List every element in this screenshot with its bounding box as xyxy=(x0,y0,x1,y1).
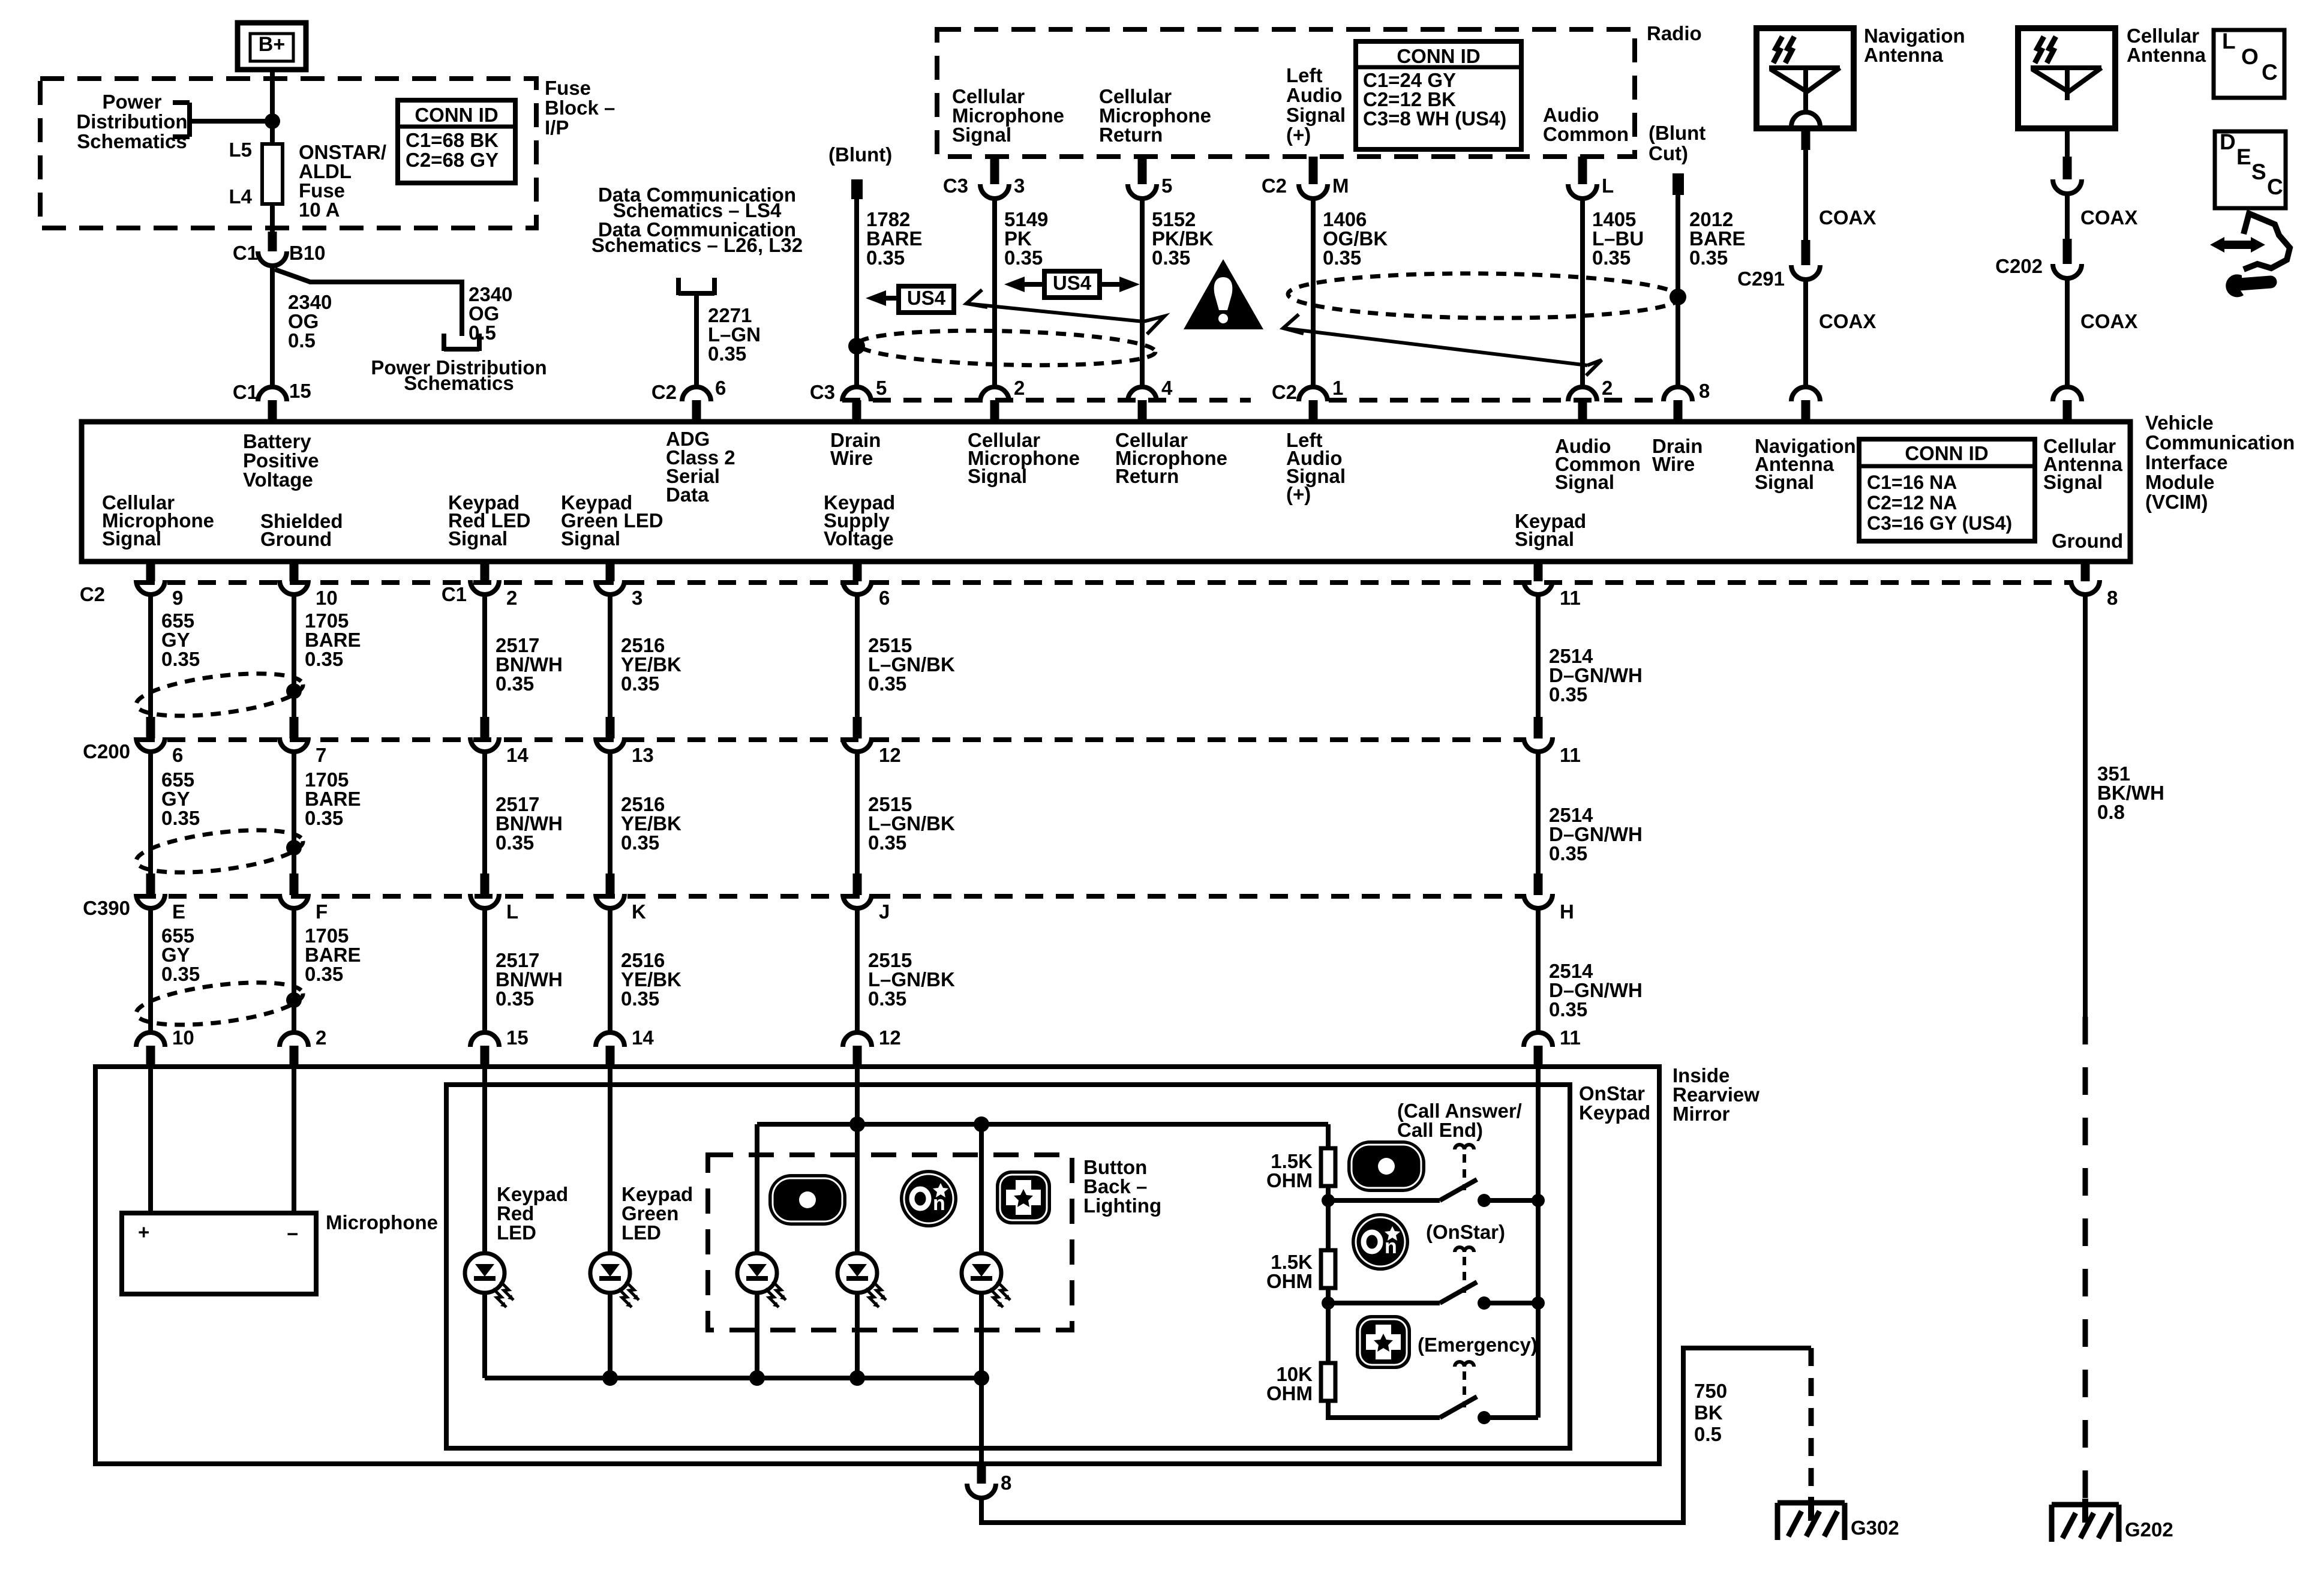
connector row C200 pin 7 xyxy=(280,737,308,752)
wire column x=1429 rows xyxy=(853,562,862,581)
LED backlight 1 xyxy=(737,1253,786,1307)
connector row C2 pin 9 xyxy=(136,580,165,595)
resistor R2 1.5K xyxy=(1321,1250,1335,1288)
battery feed B+ symbol xyxy=(238,23,306,70)
LED backlight 2 xyxy=(837,1253,886,1307)
svg-text:0.35: 0.35 xyxy=(1323,247,1361,269)
svg-text:1: 1 xyxy=(1332,377,1343,399)
svg-text:0.35: 0.35 xyxy=(708,343,746,365)
svg-text:Return: Return xyxy=(1099,124,1163,146)
Cellular antenna symbol xyxy=(2031,65,2101,70)
svg-text:F: F xyxy=(316,900,328,923)
LED keypad green xyxy=(590,1253,639,1307)
svg-text:CONN ID: CONN ID xyxy=(1905,442,1988,464)
svg-text:7: 7 xyxy=(316,744,326,766)
keypad ground drop wire xyxy=(979,1378,984,1464)
svg-text:Audio: Audio xyxy=(1286,84,1342,106)
wire 5149 from radio xyxy=(990,157,999,184)
svg-text:0.8: 0.8 xyxy=(2097,801,2125,823)
rung 2 to switch xyxy=(1328,1301,1440,1305)
svg-text:6: 6 xyxy=(172,744,183,766)
shield ellipse row 1 xyxy=(134,666,305,724)
svg-text:8: 8 xyxy=(1001,1472,1011,1494)
backlight LED 3 wire xyxy=(979,1124,984,1253)
svg-text:D: D xyxy=(2220,130,2236,154)
svg-text:LED: LED xyxy=(497,1221,536,1244)
connector cell antenna into VCIM xyxy=(2053,387,2082,401)
connector row C200 pin 12 xyxy=(843,737,872,752)
svg-text:8: 8 xyxy=(1699,380,1710,402)
ground symbol G202 xyxy=(2052,1502,2119,1508)
wire branch 2340 OG to power distribution xyxy=(275,269,462,336)
button backlighting dashed box xyxy=(708,1155,1072,1330)
microphone wires into mirror xyxy=(148,1069,153,1213)
svg-text:OHM: OHM xyxy=(1266,1270,1313,1292)
keypad red LED wire xyxy=(482,1069,487,1253)
connector nav antenna into VCIM xyxy=(1791,387,1820,401)
wire 750 BK routing xyxy=(981,1348,1811,1523)
node drain to shield A xyxy=(848,338,865,355)
svg-text:6: 6 xyxy=(879,587,890,609)
svg-text:G302: G302 xyxy=(1851,1517,1899,1539)
connector mirror pin 2 xyxy=(280,1032,308,1047)
svg-text:0.35: 0.35 xyxy=(1549,842,1587,864)
svg-text:C3: C3 xyxy=(943,175,968,197)
svg-text:L: L xyxy=(1602,175,1614,197)
svg-text:0.35: 0.35 xyxy=(1152,247,1190,269)
svg-text:COAX: COAX xyxy=(1819,206,1876,229)
svg-text:0.35: 0.35 xyxy=(305,648,343,670)
svg-text:H: H xyxy=(1560,900,1574,923)
rung 3 corner xyxy=(1328,1401,1440,1418)
svg-text:Signal: Signal xyxy=(1286,104,1346,126)
wire B+ to fuse xyxy=(270,70,275,144)
connector mirror pin 11 xyxy=(1524,1032,1553,1047)
blunt cut drain wire 2012 xyxy=(1673,173,1684,195)
svg-text:Antenna: Antenna xyxy=(2127,44,2206,66)
svg-text:14: 14 xyxy=(632,1026,654,1049)
connector row C390 pin K xyxy=(596,894,624,908)
dashed connector row C2/C1 xyxy=(137,580,2071,585)
svg-text:Microphone: Microphone xyxy=(326,1211,438,1233)
svg-text:Signal: Signal xyxy=(1755,471,1814,493)
keypad signal wire xyxy=(1536,1069,1541,1418)
wire bracket to battery node xyxy=(190,119,272,124)
svg-text:5: 5 xyxy=(1161,175,1172,197)
wire column x=251 rows xyxy=(146,562,155,581)
svg-text:(Blunt: (Blunt xyxy=(1649,122,1706,144)
coax wire navigation xyxy=(1803,150,1808,240)
connector row C200 pin 6 xyxy=(136,737,165,752)
svg-text:C1=16 NA: C1=16 NA xyxy=(1867,472,1957,493)
svg-text:0.35: 0.35 xyxy=(868,831,906,854)
svg-text:E: E xyxy=(172,900,185,923)
svg-text:0.35: 0.35 xyxy=(1549,683,1587,706)
svg-text:Communication: Communication xyxy=(2145,431,2295,454)
svg-text:C: C xyxy=(2267,175,2283,199)
node battery junction xyxy=(265,113,280,129)
svg-text:0.35: 0.35 xyxy=(621,831,659,854)
svg-text:0.35: 0.35 xyxy=(161,963,200,985)
svg-text:B+: B+ xyxy=(259,33,285,56)
fuse F1 ONSTAR/ALDL 10A xyxy=(262,144,283,204)
switch S1 actuator xyxy=(1455,1145,1474,1149)
connector row C2 pin 2 xyxy=(470,580,499,595)
wire 1406 from radio xyxy=(1309,157,1318,184)
svg-text:Left: Left xyxy=(1286,64,1323,86)
connector row C200 pin 13 xyxy=(596,737,624,752)
svg-text:OHM: OHM xyxy=(1266,1382,1313,1404)
svg-text:+: + xyxy=(138,1221,149,1243)
svg-text:Wire: Wire xyxy=(1652,453,1695,475)
svg-text:0.35: 0.35 xyxy=(305,963,343,985)
connector row C390 pin J xyxy=(843,894,872,908)
dashed connector row radio C3/C2 xyxy=(842,398,1251,403)
svg-text:Data: Data xyxy=(666,484,709,506)
svg-text:Signal: Signal xyxy=(1555,471,1614,493)
connector pin 2 into VCIM xyxy=(1568,387,1597,401)
svg-text:0.35: 0.35 xyxy=(621,987,659,1010)
connector pin 8 into VCIM (blunt drain) xyxy=(1664,387,1692,401)
dashed connector row C200 xyxy=(137,737,1524,742)
svg-text:12: 12 xyxy=(879,1026,901,1049)
svg-text:Radio: Radio xyxy=(1647,22,1702,44)
svg-text:Signal: Signal xyxy=(102,527,161,550)
svg-text:Signal: Signal xyxy=(1515,528,1574,550)
wire column x=490 rows xyxy=(290,562,299,581)
wire 2340 OG main down xyxy=(270,266,275,387)
backlight onstar button icon xyxy=(900,1170,957,1227)
wire 351 dashed continuation to G202 xyxy=(2083,1017,2088,1505)
svg-text:COAX: COAX xyxy=(2080,310,2137,332)
svg-text:Common: Common xyxy=(1543,123,1629,145)
Navigation antenna box xyxy=(1756,28,1854,128)
svg-text:0.35: 0.35 xyxy=(1592,247,1631,269)
supply feed to resistor chain xyxy=(1326,1124,1331,1148)
svg-text:Return: Return xyxy=(1115,465,1179,487)
US4 option box 2 with arrows xyxy=(1044,271,1100,298)
bracket to power distribution xyxy=(187,103,192,137)
connector row C2 pin 8 (ground) xyxy=(2071,580,2100,595)
onstar keypad box xyxy=(446,1085,1570,1448)
wire fuse to connector B10 xyxy=(270,204,275,232)
svg-text:C2=68 GY: C2=68 GY xyxy=(406,149,499,171)
connector pin 2 into VCIM xyxy=(980,387,1009,401)
svg-text:Mirror: Mirror xyxy=(1673,1103,1730,1125)
CONN ID table fuse block xyxy=(398,100,515,183)
svg-text:10: 10 xyxy=(172,1026,194,1049)
svg-text:L5: L5 xyxy=(229,139,252,161)
svg-text:Voltage: Voltage xyxy=(243,469,313,491)
svg-text:C2=12 NA: C2=12 NA xyxy=(1867,492,1957,514)
Navigation antenna symbol xyxy=(1769,65,1840,70)
svg-text:Lighting: Lighting xyxy=(1083,1194,1161,1217)
svg-text:0.35: 0.35 xyxy=(868,673,906,695)
blunt end drain wire 1782 xyxy=(851,179,863,199)
LED keypad red xyxy=(465,1253,514,1307)
svg-text:Signal: Signal xyxy=(952,124,1011,146)
svg-text:9: 9 xyxy=(172,587,183,609)
wire 750 dashed to G302 xyxy=(1809,1348,1814,1503)
wire column x=808 rows xyxy=(481,562,490,581)
CONN ID table VCIM xyxy=(1859,439,2035,541)
connector row C200 pin 14 xyxy=(470,737,499,752)
svg-text:J: J xyxy=(879,900,890,923)
connector mirror pin 15 xyxy=(470,1032,499,1047)
connector mirror pin 10 xyxy=(136,1032,165,1047)
svg-text:15: 15 xyxy=(506,1026,529,1049)
node rung2 xyxy=(1322,1296,1335,1310)
connector mirror pin 14 xyxy=(596,1032,624,1047)
shield ellipse row 3 xyxy=(134,975,305,1032)
switch S3 actuator xyxy=(1455,1362,1474,1367)
switch S2 blade xyxy=(1440,1282,1477,1303)
svg-text:C1: C1 xyxy=(233,381,258,403)
svg-text:Interface: Interface xyxy=(2145,451,2228,473)
svg-text:OHM: OHM xyxy=(1266,1169,1313,1191)
svg-text:C2: C2 xyxy=(1272,381,1297,403)
rung 1 to switch xyxy=(1328,1198,1440,1203)
keypad supply voltage wire xyxy=(855,1069,860,1124)
backlight phone button icon xyxy=(768,1174,846,1226)
navigation antenna lead xyxy=(1801,130,1810,150)
svg-text:−: − xyxy=(287,1223,298,1245)
svg-text:Power: Power xyxy=(102,91,161,113)
svg-text:C3=8 WH (US4): C3=8 WH (US4) xyxy=(1363,107,1506,130)
wire 2271 L-GN xyxy=(694,295,699,387)
ground symbol G302 xyxy=(1777,1500,1845,1506)
svg-text:L4: L4 xyxy=(229,185,252,208)
LOC reference box xyxy=(2214,30,2284,98)
Cellular antenna box xyxy=(2018,28,2115,128)
DESC reference box xyxy=(2215,131,2286,208)
leader line to shield B xyxy=(1283,328,1587,365)
onstar button icon xyxy=(1352,1213,1409,1271)
connector row C390 pin H xyxy=(1524,894,1553,908)
svg-text:LED: LED xyxy=(621,1221,661,1244)
backlight emergency button icon xyxy=(996,1170,1051,1224)
svg-text:Signal: Signal xyxy=(2043,471,2103,493)
svg-text:12: 12 xyxy=(879,744,901,766)
wire 1782 BARE drain xyxy=(854,199,859,387)
svg-text:CONN ID: CONN ID xyxy=(1397,45,1480,67)
svg-text:C200: C200 xyxy=(83,740,130,763)
LED return bus xyxy=(485,1376,981,1380)
svg-text:11: 11 xyxy=(1560,1026,1581,1049)
svg-text:(+): (+) xyxy=(1286,124,1311,146)
svg-text:0.35: 0.35 xyxy=(1004,247,1043,269)
svg-text:C3=16 GY (US4): C3=16 GY (US4) xyxy=(1867,512,2012,534)
svg-text:6: 6 xyxy=(715,377,726,399)
svg-text:Schematics – L26, L32: Schematics – L26, L32 xyxy=(591,234,803,256)
svg-text:I/P: I/P xyxy=(545,116,569,139)
svg-text:BK: BK xyxy=(1694,1401,1723,1424)
svg-text:Distribution: Distribution xyxy=(76,110,187,133)
svg-text:5: 5 xyxy=(876,377,887,399)
svg-text:0.5: 0.5 xyxy=(288,329,316,352)
inside rearview mirror box xyxy=(95,1067,1659,1464)
svg-text:US4: US4 xyxy=(907,287,946,309)
svg-text:15: 15 xyxy=(289,380,311,402)
connector pin 1 into VCIM xyxy=(1299,387,1328,401)
connector row C2 pin 3 xyxy=(596,580,624,595)
svg-text:11: 11 xyxy=(1560,744,1581,766)
svg-text:Module: Module xyxy=(2145,471,2214,493)
resistor R1 1.5K xyxy=(1321,1148,1335,1186)
svg-text:0.35: 0.35 xyxy=(161,807,200,829)
svg-text:E: E xyxy=(2236,145,2251,169)
svg-text:Keypad: Keypad xyxy=(1579,1101,1650,1124)
svg-text:0.5: 0.5 xyxy=(469,322,496,344)
backlight LED 1 wire xyxy=(755,1124,759,1253)
switch S2 actuator xyxy=(1455,1247,1474,1252)
connector row C2 pin 11 xyxy=(1524,580,1553,595)
svg-text:Block –: Block – xyxy=(545,97,615,119)
svg-text:K: K xyxy=(632,900,646,923)
US4 option box 1 with arrow xyxy=(899,286,954,313)
svg-text:0.5: 0.5 xyxy=(1694,1423,1722,1445)
connector pin 4 into VCIM xyxy=(1128,387,1157,401)
svg-text:C2: C2 xyxy=(651,381,677,403)
tools navigation icon xyxy=(2221,241,2256,249)
svg-text:L: L xyxy=(2222,29,2236,53)
keypad green LED wire xyxy=(608,1069,612,1253)
svg-text:G202: G202 xyxy=(2125,1518,2173,1541)
ground wire 351 from VCIM xyxy=(2081,562,2090,581)
svg-text:2: 2 xyxy=(506,587,517,609)
warning triangle note xyxy=(1184,259,1263,329)
svg-text:Ground: Ground xyxy=(260,528,332,550)
svg-text:14: 14 xyxy=(506,744,529,766)
wire column x=1017 rows xyxy=(606,562,615,581)
svg-text:3: 3 xyxy=(632,587,642,609)
twisted/shield ellipse A xyxy=(857,328,1155,369)
svg-text:C2: C2 xyxy=(1262,175,1287,197)
svg-text:0.35: 0.35 xyxy=(866,247,905,269)
connector row C2 pin 6 xyxy=(843,580,872,595)
svg-text:Voltage: Voltage xyxy=(824,527,894,550)
svg-text:4: 4 xyxy=(1161,377,1173,399)
svg-text:0.35: 0.35 xyxy=(496,831,534,854)
node rung1 xyxy=(1322,1194,1335,1207)
connector mirror bottom pin 8 xyxy=(967,1484,996,1498)
shield ellipse row 2 xyxy=(134,822,305,880)
svg-text:Antenna: Antenna xyxy=(1864,44,1944,66)
svg-text:C3: C3 xyxy=(810,381,835,403)
svg-text:0.35: 0.35 xyxy=(161,648,200,670)
svg-text:M: M xyxy=(1332,175,1349,197)
svg-text:10: 10 xyxy=(316,587,338,609)
svg-text:10 A: 10 A xyxy=(299,199,340,221)
svg-text:US4: US4 xyxy=(1053,272,1092,294)
svg-text:Call End): Call End) xyxy=(1397,1119,1483,1141)
svg-text:0.35: 0.35 xyxy=(305,807,343,829)
phone button icon xyxy=(1347,1140,1425,1192)
microphone box xyxy=(122,1213,316,1294)
svg-text:0.35: 0.35 xyxy=(1549,998,1587,1020)
svg-text:0.35: 0.35 xyxy=(868,987,906,1010)
svg-text:2: 2 xyxy=(316,1026,326,1049)
svg-text:Schematics: Schematics xyxy=(404,372,514,394)
dashed connector row C390 xyxy=(138,894,1524,899)
svg-text:(+): (+) xyxy=(1286,483,1311,505)
svg-text:(OnStar): (OnStar) xyxy=(1426,1221,1505,1243)
leader line to shield A xyxy=(966,304,1143,322)
svg-text:8: 8 xyxy=(2107,587,2118,609)
svg-text:C2: C2 xyxy=(80,583,105,605)
emergency button icon xyxy=(1356,1315,1411,1369)
wire column x=2564 rows xyxy=(1534,562,1543,581)
off-page bracket power distribution xyxy=(442,334,446,351)
svg-text:0.35: 0.35 xyxy=(621,673,659,695)
svg-text:2: 2 xyxy=(1014,377,1025,399)
connector row C390 pin E xyxy=(136,894,165,908)
svg-text:0.35: 0.35 xyxy=(1689,247,1728,269)
twisted/shield ellipse B xyxy=(1288,272,1681,320)
connector mirror pin 12 xyxy=(843,1032,872,1047)
svg-text:S: S xyxy=(2251,160,2266,184)
off-page bracket data communication xyxy=(676,278,681,295)
connector row C390 pin L xyxy=(470,894,499,908)
svg-text:CONN ID: CONN ID xyxy=(415,104,498,126)
supply bus xyxy=(757,1122,1328,1127)
wire 1405 from radio xyxy=(1578,157,1587,184)
svg-text:C202: C202 xyxy=(1995,255,2043,277)
svg-text:2: 2 xyxy=(1602,377,1613,399)
wire 5152 from radio xyxy=(1138,157,1147,184)
connector row C390 pin F xyxy=(280,894,308,908)
svg-text:13: 13 xyxy=(632,744,654,766)
svg-text:(Blunt): (Blunt) xyxy=(828,143,892,166)
svg-text:COAX: COAX xyxy=(1819,310,1876,332)
radio dashed box xyxy=(937,29,1635,157)
fuse block I/P dashed box xyxy=(40,79,536,228)
switch S3 blade xyxy=(1440,1397,1477,1418)
svg-text:Vehicle: Vehicle xyxy=(2145,412,2214,434)
CONN ID table radio xyxy=(1356,41,1521,149)
svg-text:0.35: 0.35 xyxy=(496,987,534,1010)
svg-text:Signal: Signal xyxy=(561,527,620,550)
svg-text:(VCIM): (VCIM) xyxy=(2145,491,2208,513)
svg-text:Signal: Signal xyxy=(968,465,1027,487)
VCIM module box xyxy=(82,422,2130,562)
svg-text:Cut): Cut) xyxy=(1649,142,1688,164)
svg-text:C390: C390 xyxy=(83,897,130,919)
svg-text:Wire: Wire xyxy=(830,447,873,469)
svg-text:COAX: COAX xyxy=(2080,206,2137,229)
svg-text:Signal: Signal xyxy=(448,527,508,550)
svg-text:C1: C1 xyxy=(233,242,258,264)
svg-text:3: 3 xyxy=(1014,175,1025,197)
svg-text:(Emergency): (Emergency) xyxy=(1418,1334,1538,1356)
svg-text:0.35: 0.35 xyxy=(496,673,534,695)
switch S1 blade xyxy=(1440,1179,1477,1200)
connector row C2 pin 10 xyxy=(280,580,308,595)
svg-text:B10: B10 xyxy=(289,242,326,264)
svg-text:Schematics: Schematics xyxy=(77,130,187,152)
svg-text:C291: C291 xyxy=(1737,268,1785,290)
resistor R3 10K xyxy=(1321,1363,1335,1401)
connector row C200 pin 11 xyxy=(1524,737,1553,752)
svg-text:Ground: Ground xyxy=(2052,530,2123,552)
svg-text:11: 11 xyxy=(1560,587,1581,609)
LED backlight 3 xyxy=(962,1253,1010,1307)
cellular antenna base connector xyxy=(2053,179,2082,194)
svg-text:C1=68 BK: C1=68 BK xyxy=(406,129,499,151)
svg-text:Fuse: Fuse xyxy=(545,77,591,99)
svg-text:L: L xyxy=(506,900,518,923)
svg-text:O: O xyxy=(2241,44,2259,69)
